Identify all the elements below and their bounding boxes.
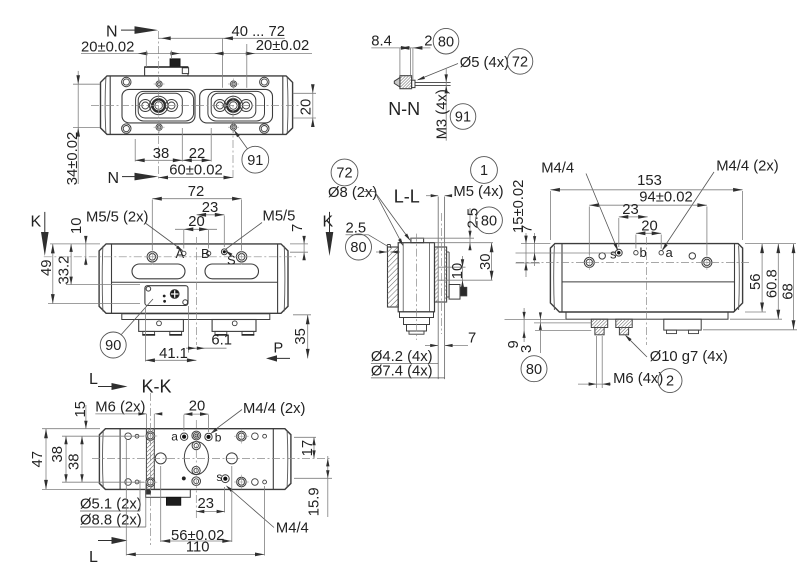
svg-text:80: 80 <box>481 213 497 229</box>
svg-text:Ø10 g7 (4x): Ø10 g7 (4x) <box>650 349 728 365</box>
svg-text:M4/4: M4/4 <box>541 161 574 177</box>
svg-text:N: N <box>106 24 118 41</box>
svg-text:P: P <box>274 341 284 357</box>
svg-text:72: 72 <box>188 184 204 200</box>
svg-text:10: 10 <box>450 263 466 279</box>
svg-text:22: 22 <box>189 146 205 162</box>
svg-text:8.4: 8.4 <box>371 34 392 50</box>
svg-text:90: 90 <box>105 338 121 354</box>
svg-text:20±0.02: 20±0.02 <box>256 38 309 54</box>
svg-text:7: 7 <box>520 225 536 233</box>
svg-text:L-L: L-L <box>394 187 420 207</box>
svg-text:80: 80 <box>526 362 542 378</box>
svg-text:M6 (2x): M6 (2x) <box>95 400 145 416</box>
svg-text:M4/4 (2x): M4/4 (2x) <box>716 159 779 175</box>
svg-text:56: 56 <box>748 274 764 290</box>
svg-text:2: 2 <box>666 374 674 390</box>
svg-text:38: 38 <box>67 454 83 470</box>
svg-text:s: s <box>216 470 222 484</box>
svg-text:M6 (4x): M6 (4x) <box>613 371 663 387</box>
svg-text:91: 91 <box>247 153 263 169</box>
svg-text:72: 72 <box>336 166 352 182</box>
svg-text:Ø8.8 (2x): Ø8.8 (2x) <box>80 513 142 529</box>
svg-text:s: s <box>610 247 617 262</box>
svg-text:Ø5 (4x): Ø5 (4x) <box>460 55 509 71</box>
svg-text:1: 1 <box>480 163 488 179</box>
svg-text:15: 15 <box>73 401 89 417</box>
svg-text:N-N: N-N <box>388 99 420 119</box>
svg-text:20±0.02: 20±0.02 <box>81 39 134 55</box>
svg-text:23: 23 <box>198 496 214 512</box>
svg-text:N: N <box>108 170 120 187</box>
svg-text:a: a <box>171 429 178 443</box>
svg-text:7: 7 <box>290 224 306 232</box>
svg-text:M4/4 (2x): M4/4 (2x) <box>243 401 306 417</box>
svg-text:20: 20 <box>188 214 204 230</box>
svg-text:10: 10 <box>69 218 85 234</box>
svg-text:38: 38 <box>153 146 169 162</box>
svg-text:M4/4: M4/4 <box>276 521 309 537</box>
svg-text:Ø4.2 (4x): Ø4.2 (4x) <box>371 349 433 365</box>
svg-text:Ø7.4 (4x): Ø7.4 (4x) <box>371 364 433 380</box>
svg-text:110: 110 <box>186 539 210 555</box>
svg-text:M5 (4x): M5 (4x) <box>453 184 503 200</box>
svg-text:35: 35 <box>293 328 309 344</box>
svg-text:6.1: 6.1 <box>211 333 232 349</box>
svg-text:15.9: 15.9 <box>306 487 322 516</box>
svg-text:80: 80 <box>438 34 454 50</box>
svg-text:Ø8 (2x): Ø8 (2x) <box>328 185 377 201</box>
svg-text:a: a <box>666 245 674 260</box>
svg-text:M3 (4x): M3 (4x) <box>435 89 451 139</box>
svg-text:94±0.02: 94±0.02 <box>639 189 692 205</box>
svg-text:M5/5: M5/5 <box>263 209 296 225</box>
svg-text:3: 3 <box>519 345 535 353</box>
svg-text:91: 91 <box>455 110 471 126</box>
svg-text:38: 38 <box>50 446 66 462</box>
svg-text:68: 68 <box>781 283 797 299</box>
svg-text:L: L <box>89 371 98 388</box>
svg-text:23: 23 <box>622 202 638 218</box>
svg-text:K: K <box>31 214 42 231</box>
svg-text:30: 30 <box>478 254 494 270</box>
svg-text:2: 2 <box>424 34 432 50</box>
svg-text:72: 72 <box>512 55 528 71</box>
svg-text:b: b <box>215 430 222 444</box>
svg-text:L: L <box>89 549 98 566</box>
svg-text:60±0.02: 60±0.02 <box>169 163 222 179</box>
svg-text:K: K <box>323 214 334 231</box>
svg-text:80: 80 <box>350 240 366 256</box>
svg-text:Ø5.1 (2x): Ø5.1 (2x) <box>80 497 142 513</box>
svg-text:20: 20 <box>641 219 657 235</box>
svg-text:47: 47 <box>30 451 46 467</box>
svg-text:20: 20 <box>189 398 205 414</box>
svg-text:K-K: K-K <box>142 377 172 397</box>
svg-text:17: 17 <box>300 440 316 456</box>
svg-text:M5/5 (2x): M5/5 (2x) <box>86 210 149 226</box>
svg-text:60.8: 60.8 <box>765 269 781 298</box>
svg-text:b: b <box>640 245 647 260</box>
svg-text:33.2: 33.2 <box>57 256 73 285</box>
svg-text:20: 20 <box>299 99 315 115</box>
svg-text:7: 7 <box>468 331 476 347</box>
svg-text:41.1: 41.1 <box>159 346 188 362</box>
svg-text:153: 153 <box>637 173 662 189</box>
